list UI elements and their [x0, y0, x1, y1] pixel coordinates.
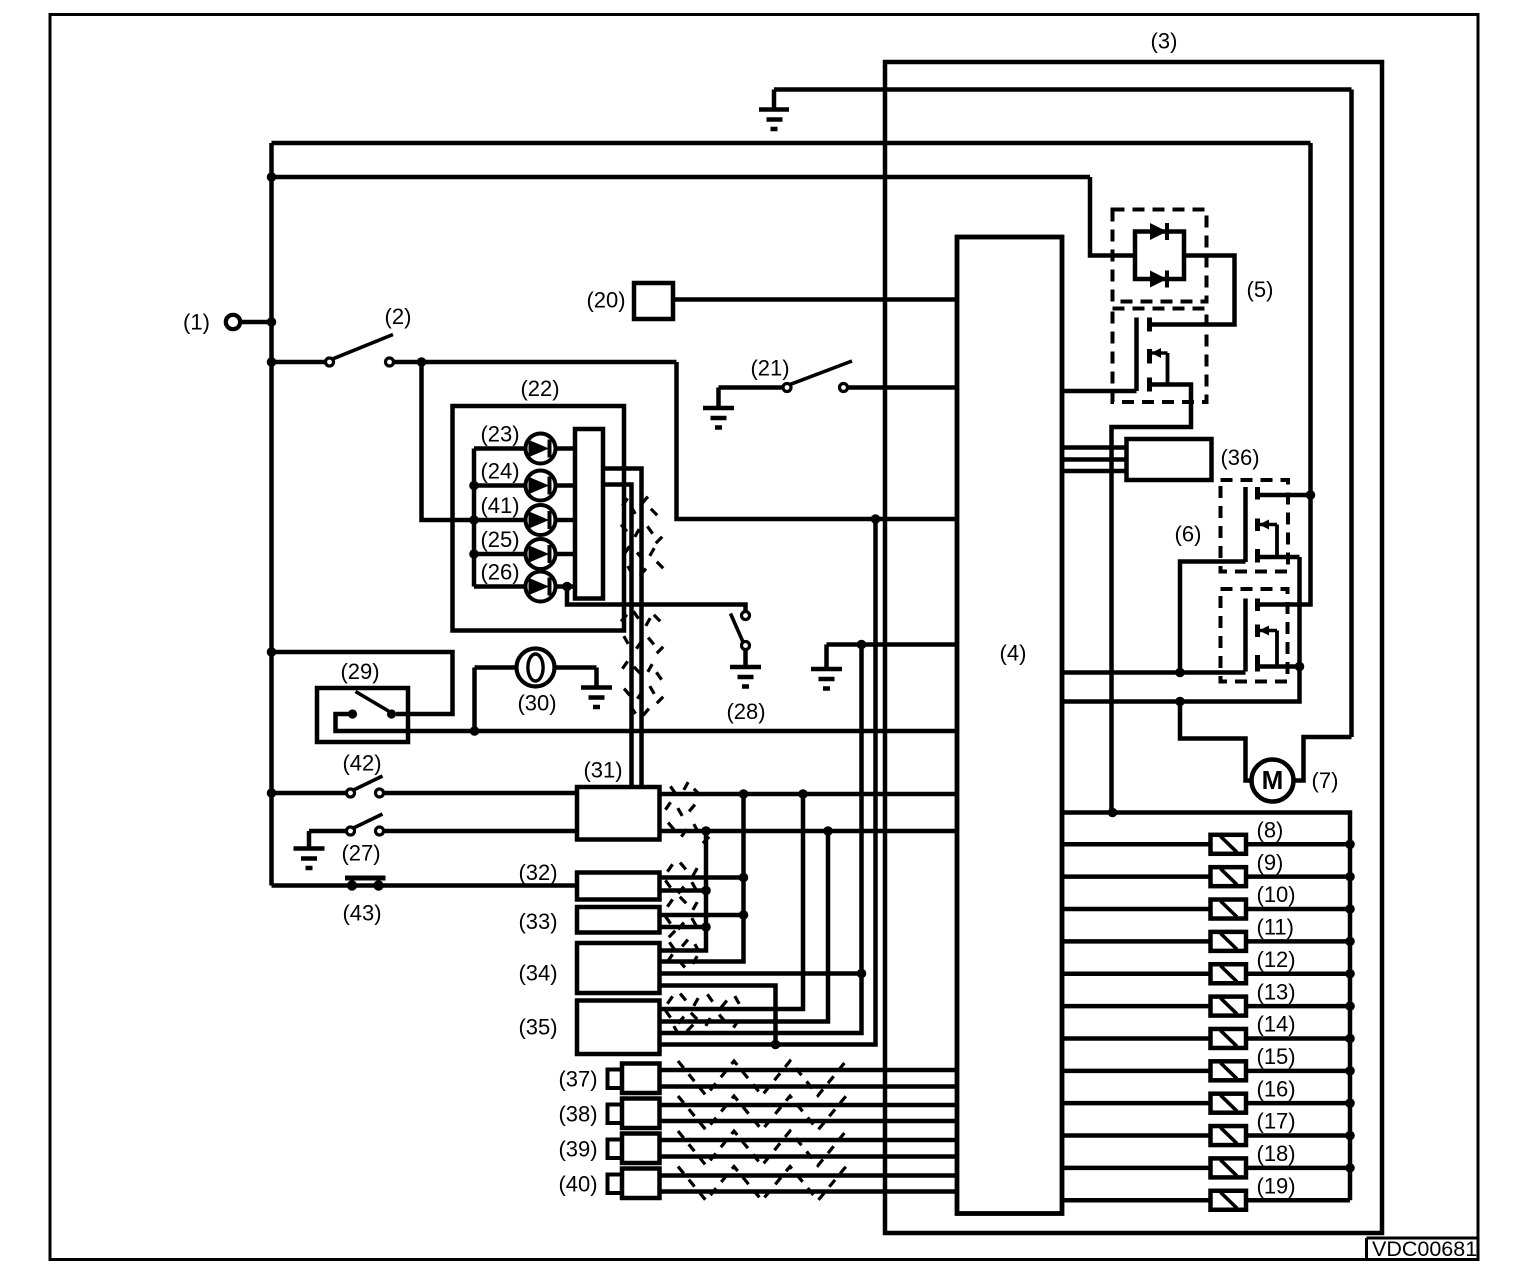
svg-text:(38): (38)	[558, 1102, 597, 1127]
svg-text:(21): (21)	[750, 356, 789, 381]
svg-text:(37): (37)	[558, 1067, 597, 1092]
svg-text:(16): (16)	[1257, 1076, 1296, 1101]
svg-text:M: M	[1262, 765, 1284, 795]
svg-text:(19): (19)	[1257, 1173, 1296, 1198]
svg-text:(34): (34)	[518, 961, 557, 986]
svg-text:(25): (25)	[480, 527, 519, 552]
svg-text:(18): (18)	[1257, 1141, 1296, 1166]
svg-text:(29): (29)	[340, 659, 379, 684]
svg-text:(33): (33)	[518, 909, 557, 934]
svg-text:(8): (8)	[1257, 818, 1284, 843]
svg-text:(24): (24)	[480, 459, 519, 484]
svg-text:(39): (39)	[558, 1137, 597, 1162]
svg-text:(2): (2)	[385, 304, 412, 329]
svg-text:(35): (35)	[518, 1015, 557, 1040]
svg-text:(12): (12)	[1257, 947, 1296, 972]
svg-text:(42): (42)	[342, 751, 381, 776]
svg-text:(41): (41)	[480, 493, 519, 518]
svg-text:(20): (20)	[586, 288, 625, 313]
svg-text:(28): (28)	[726, 699, 765, 724]
svg-text:(1): (1)	[183, 310, 210, 335]
svg-text:(36): (36)	[1220, 445, 1259, 470]
svg-text:(23): (23)	[480, 422, 519, 447]
svg-text:(43): (43)	[342, 901, 381, 926]
svg-text:(31): (31)	[583, 758, 622, 783]
svg-text:(26): (26)	[480, 560, 519, 585]
svg-text:(3): (3)	[1151, 29, 1178, 54]
svg-text:(10): (10)	[1257, 882, 1296, 907]
svg-text:VDC00681: VDC00681	[1372, 1237, 1477, 1261]
svg-text:(7): (7)	[1312, 768, 1339, 793]
svg-text:(4): (4)	[1000, 641, 1027, 666]
svg-text:(6): (6)	[1175, 522, 1202, 547]
svg-text:(15): (15)	[1257, 1044, 1296, 1069]
svg-text:(30): (30)	[517, 691, 556, 716]
svg-text:(11): (11)	[1257, 915, 1295, 940]
svg-text:(40): (40)	[558, 1172, 597, 1197]
svg-text:(17): (17)	[1257, 1109, 1296, 1134]
svg-text:(22): (22)	[520, 376, 559, 401]
svg-text:(27): (27)	[341, 841, 380, 866]
svg-text:(32): (32)	[518, 860, 557, 885]
svg-text:(14): (14)	[1257, 1012, 1296, 1037]
svg-text:(13): (13)	[1257, 979, 1296, 1004]
svg-text:(9): (9)	[1257, 850, 1284, 875]
svg-text:(5): (5)	[1247, 277, 1274, 302]
